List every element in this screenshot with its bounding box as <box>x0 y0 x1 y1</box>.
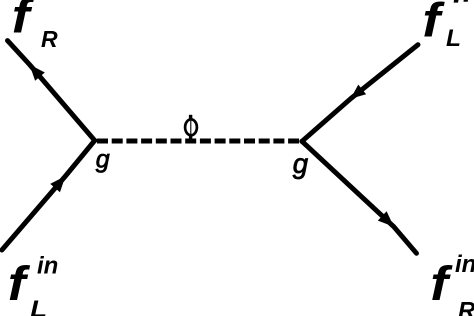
fermion line f_R (top-left outgoing) <box>8 41 95 141</box>
right vertex junction <box>300 139 305 144</box>
scalar propagator phi (dashed) <box>95 139 304 144</box>
svg-text:R: R <box>41 26 58 52</box>
svg-text:f: f <box>430 257 453 311</box>
svg-text:in: in <box>37 253 58 280</box>
fermion line f_L (top-right) <box>302 45 418 142</box>
svg-text:g: g <box>96 146 110 174</box>
arrowhead on f_L^in line <box>50 176 65 192</box>
arrowhead on f_R line <box>30 65 45 81</box>
arrowhead on f_R^in line <box>378 211 394 227</box>
svg-text:L: L <box>446 25 461 52</box>
cut-off superscript marks (top-right corner) <box>454 0 459 3</box>
svg-text:f: f <box>8 257 31 311</box>
left vertex junction <box>92 138 97 143</box>
svg-text:in: in <box>455 251 474 278</box>
svg-text:L: L <box>30 297 47 316</box>
arrowhead on f_L line <box>351 85 367 99</box>
phi symbol ellipse <box>185 119 197 135</box>
fermion line f_R^in (bottom-right) <box>302 141 417 253</box>
svg-text:g: g <box>293 148 309 179</box>
svg-text:R: R <box>458 297 474 316</box>
phi symbol stem <box>189 115 192 121</box>
svg-text:f: f <box>422 0 445 47</box>
fermion line f_L^in (bottom-left incoming) <box>2 141 95 251</box>
svg-text:f: f <box>12 0 35 43</box>
